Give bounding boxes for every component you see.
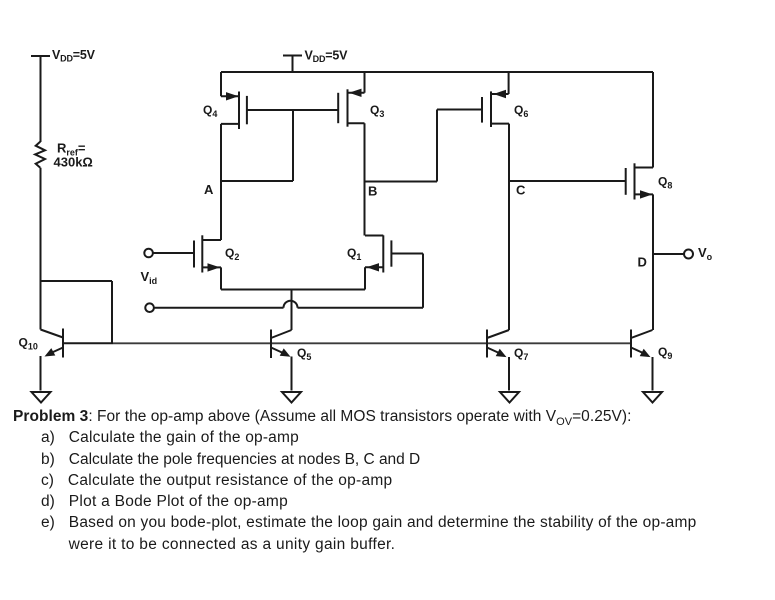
svg-text:Vid: Vid [141,269,158,286]
power VDD left [31,56,50,142]
transistor Q6 [482,72,509,330]
wire gate line Q4-Q3 [247,109,338,111]
transistor Q2 [194,235,221,289]
transistor Q5 [271,330,292,391]
ground Q5 [282,392,301,403]
transistor Q1 [365,235,391,289]
terminal Vid minus [145,303,154,312]
transistor Q4 [221,72,247,240]
wire diode connection Q10 [41,281,113,344]
node B [365,110,483,182]
label VDD left [52,48,96,64]
svg-text:B: B [368,184,377,199]
transistor Q3 [338,72,364,236]
label Q3 [370,103,384,119]
resistor Rref [35,142,45,168]
label Q5 [297,346,311,362]
svg-text:Q10: Q10 [19,336,38,352]
transistor Q8 [626,72,653,330]
label node B [368,184,377,199]
ground Q7 [500,392,519,403]
svg-text:Q1: Q1 [347,246,361,262]
svg-text:Q4: Q4 [203,103,217,119]
svg-text:430kΩ: 430kΩ [54,155,93,170]
svg-text:Q5: Q5 [297,346,311,362]
svg-text:Q8: Q8 [658,175,672,191]
wire left branch down [40,168,42,330]
transistor Q7 [487,330,509,391]
terminal Vo [684,250,693,259]
svg-text:Q3: Q3 [370,103,384,119]
label node D [638,255,647,270]
svg-text:VDD=5V: VDD=5V [52,48,96,64]
label Rref value [54,141,93,170]
svg-text:A: A [204,182,214,197]
label node C [516,183,526,198]
label Q9 [658,345,672,361]
svg-text:Q2: Q2 [225,246,239,262]
label Q2 [225,246,239,262]
node C [509,180,626,182]
transistor Q9 [631,330,653,391]
ground Q10 [32,392,51,403]
problem statement text [13,408,631,426]
wire to Q2 gate [153,252,194,254]
svg-text:D: D [638,255,647,270]
label Vid [141,269,158,286]
node A [221,110,293,181]
node D output wire [653,253,684,255]
label Q6 [514,103,528,119]
terminal Vid plus [144,249,153,258]
wire top supply rail [221,71,653,73]
label node A [204,182,214,197]
label Q1 [347,246,361,262]
label Q10 [19,336,38,352]
svg-text:Q6: Q6 [514,103,528,119]
svg-text:VDD=5V: VDD=5V [305,49,349,65]
power VDD middle [283,56,302,73]
wire bias rail [63,342,631,344]
transistor Q10 [41,329,64,391]
svg-text:Q9: Q9 [658,345,672,361]
label Q4 [203,103,217,119]
svg-text:Vo: Vo [698,245,713,262]
label Vo [698,245,713,262]
label VDD middle [305,49,349,65]
wire lower input with hop [154,254,423,308]
label Q8 [658,175,672,191]
wire tail [221,290,365,331]
label Q7 [514,346,528,362]
ground Q9 [643,392,662,403]
svg-text:C: C [516,183,526,198]
svg-text:Q7: Q7 [514,346,528,362]
